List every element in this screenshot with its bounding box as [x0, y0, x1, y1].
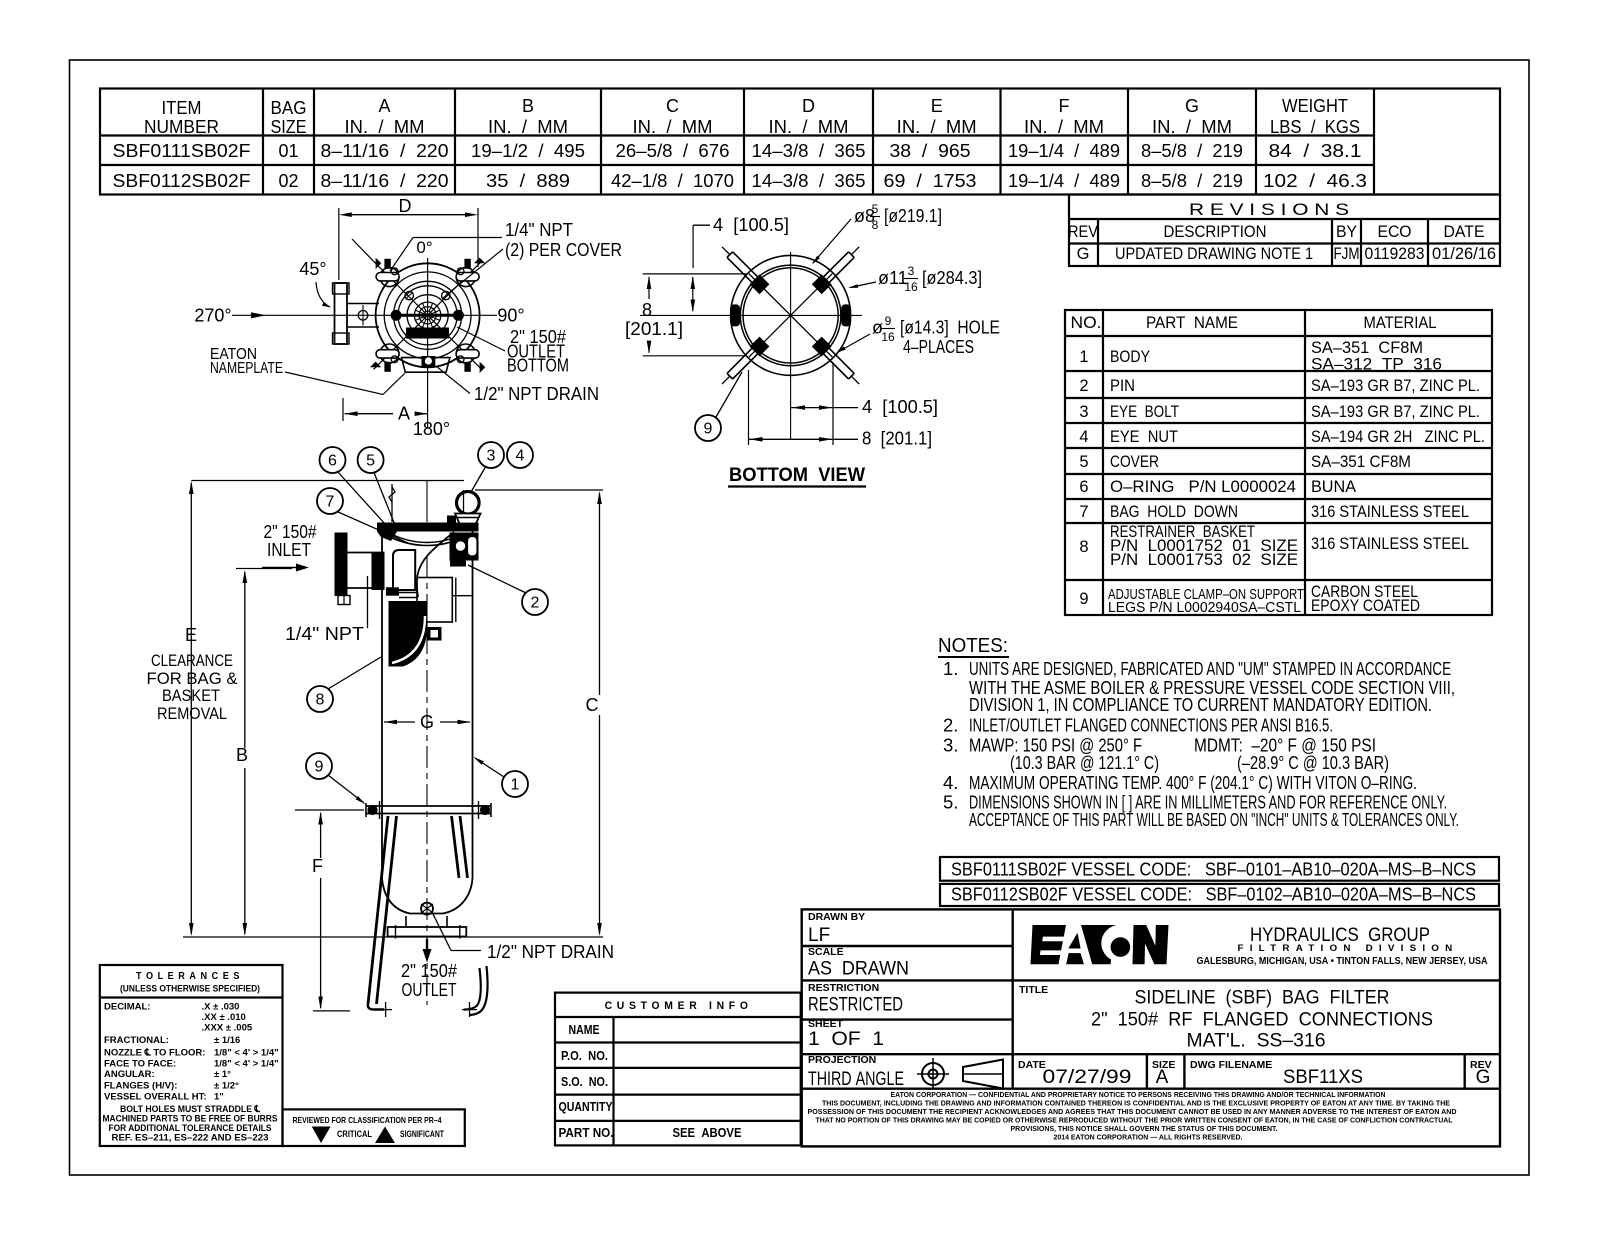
- title block labels: [808, 911, 1492, 1071]
- svg-text:G: G: [420, 712, 434, 732]
- inlet flange (black): [335, 533, 348, 597]
- svg-text:NOZZLE ℄ TO FLOOR:: NOZZLE ℄ TO FLOOR:: [104, 1048, 205, 1059]
- neck line right: [463, 490, 465, 522]
- svg-text:P.O. NO.: P.O. NO.: [561, 1049, 608, 1063]
- svg-text:2.: 2.: [943, 715, 958, 736]
- svg-text:THIRD ANGLE: THIRD ANGLE: [808, 1069, 904, 1090]
- filter bag section (black blob): [389, 601, 428, 667]
- svg-text:REVIEWED FOR CLASSIFICATION PE: REVIEWED FOR CLASSIFICATION PER PR–4: [293, 1115, 442, 1125]
- svg-text:OUTLET: OUTLET: [402, 979, 457, 1000]
- 1/2 NPT DRAIN leader: [432, 912, 451, 951]
- bag hold down ring section: [393, 550, 415, 590]
- svg-text:8–5/8 / 219: 8–5/8 / 219: [1141, 141, 1243, 161]
- svg-text:BUNA: BUNA: [1311, 478, 1356, 496]
- svg-text:3: 3: [1079, 403, 1088, 421]
- svg-text:2" 150#: 2" 150#: [401, 960, 458, 981]
- svg-text:SBF0111SB02F VESSEL CODE: SB: SBF0111SB02F VESSEL CODE: SBF–0101–AB10–…: [951, 860, 1476, 880]
- horizontal centerline: [640, 314, 862, 316]
- inlet flow arrow: [262, 567, 296, 569]
- heavy horizontal bar through center: [396, 314, 458, 317]
- svg-text:SA–351 CF8M: SA–351 CF8M: [1311, 453, 1411, 471]
- bolt circle: [407, 295, 448, 336]
- svg-text:SIZE: SIZE: [271, 117, 307, 137]
- dim 8 [201.1] left: [643, 273, 747, 275]
- bottom view outer circle: [731, 255, 851, 375]
- dimension B line: [244, 572, 246, 748]
- cover ear bumps: [380, 268, 399, 287]
- ground extension line: [183, 936, 603, 938]
- top table text: [113, 96, 1368, 191]
- nameplate leader: [285, 372, 383, 395]
- svg-text:4 [100.5]: 4 [100.5]: [862, 397, 938, 417]
- svg-text:BAG HOLD DOWN: BAG HOLD DOWN: [1110, 503, 1238, 521]
- C top extension: [475, 489, 603, 491]
- balloon 3: [478, 442, 504, 468]
- svg-text:3.: 3.: [943, 735, 958, 756]
- svg-text:5.: 5.: [943, 792, 958, 813]
- svg-text:FACE TO FACE:: FACE TO FACE:: [104, 1059, 176, 1070]
- svg-text:8 [201.1]: 8 [201.1]: [862, 429, 932, 449]
- svg-text:COVER: COVER: [1110, 453, 1159, 471]
- break squiggle on neck line: [391, 484, 393, 522]
- svg-text:CRITICAL: CRITICAL: [337, 1129, 372, 1139]
- O dot: [1111, 937, 1131, 957]
- title block values: [808, 925, 1490, 1090]
- center spokes: [432, 317, 440, 320]
- svg-text:2" 150# RF FLANGED CONNECT: 2" 150# RF FLANGED CONNECTIONS: [1091, 1010, 1433, 1031]
- svg-text:E: E: [185, 625, 197, 645]
- svg-text:ITEM: ITEM: [162, 98, 202, 118]
- vessel shell right wall: [472, 531, 474, 878]
- svg-text:DRAWN BY: DRAWN BY: [808, 911, 865, 923]
- svg-text:G: G: [1476, 1067, 1491, 1088]
- port circles 1/4 NPT: [405, 291, 413, 299]
- svg-text:45°: 45°: [299, 259, 326, 279]
- svg-text:180°: 180°: [413, 419, 450, 439]
- svg-text:SEE ABOVE: SEE ABOVE: [673, 1126, 742, 1140]
- svg-text:1.: 1.: [943, 658, 958, 679]
- 1/4 NPT boss: [338, 596, 350, 605]
- svg-text:SBF0112SB02F VESSEL CODE: SB: SBF0112SB02F VESSEL CODE: SBF–0102–AB10–…: [951, 885, 1476, 905]
- critical symbol: [312, 1127, 331, 1144]
- svg-text:SA–194 GR 2H ZINC PL.: SA–194 GR 2H ZINC PL.: [1311, 428, 1485, 446]
- svg-text:QUANTITY: QUANTITY: [559, 1100, 614, 1114]
- right support leg upper: [452, 816, 460, 878]
- third angle projection symbols: [917, 1058, 1003, 1090]
- B top extension: [236, 568, 292, 570]
- svg-text:4.: 4.: [943, 772, 958, 793]
- svg-text:26–5/8 / 676: 26–5/8 / 676: [616, 141, 730, 161]
- svg-text:PIN: PIN: [1110, 377, 1135, 395]
- leader outlet bottom: [457, 327, 505, 351]
- vertical centerline: [427, 258, 429, 428]
- cover plate (black): [377, 523, 479, 532]
- svg-text:B: B: [522, 96, 534, 116]
- customer info table: [555, 993, 801, 1146]
- D dimension: [345, 214, 470, 216]
- top dimension table grid: [100, 89, 1500, 195]
- svg-text:EPOXY COATED: EPOXY COATED: [1311, 597, 1420, 615]
- notes: [938, 634, 1459, 830]
- svg-text:FRACTIONAL:: FRACTIONAL:: [104, 1035, 169, 1046]
- svg-text:NAMEPLATE: NAMEPLATE: [210, 360, 283, 377]
- svg-text:42–1/8 / 1070: 42–1/8 / 1070: [611, 171, 734, 191]
- svg-text:[ø219.1]: [ø219.1]: [884, 206, 942, 226]
- svg-text:TITLE: TITLE: [1019, 984, 1048, 996]
- inlet pipe lines: [348, 552, 385, 554]
- svg-text:REMOVAL: REMOVAL: [157, 704, 227, 723]
- svg-text:2: 2: [531, 595, 540, 612]
- reviewed for classification box: [283, 1109, 465, 1146]
- F top extension: [295, 809, 364, 811]
- svg-text:F: F: [1059, 96, 1070, 116]
- svg-text:BAG: BAG: [271, 98, 307, 118]
- svg-text:9: 9: [315, 759, 324, 776]
- svg-text:TOLERANCES: TOLERANCES: [136, 971, 244, 982]
- svg-text:UNITS ARE DESIGNED, FABRICATED: UNITS ARE DESIGNED, FABRICATED AND "UM" …: [969, 658, 1451, 679]
- svg-text:16: 16: [904, 280, 918, 294]
- vessel centerline: [426, 480, 428, 522]
- svg-text:DIVISION 1, IN COMPLIANCE TO C: DIVISION 1, IN COMPLIANCE TO CURRENT MAN…: [969, 694, 1432, 715]
- svg-text:REV: REV: [1068, 223, 1098, 241]
- svg-text:4 [100.5]: 4 [100.5]: [713, 215, 789, 235]
- balloon 1: [502, 771, 528, 797]
- svg-text:2" 150#: 2" 150#: [264, 522, 317, 542]
- svg-text:IN. / MM: IN. / MM: [1024, 117, 1104, 137]
- svg-text:AS DRAWN: AS DRAWN: [808, 959, 909, 980]
- svg-text:19–1/2 / 495: 19–1/2 / 495: [471, 141, 585, 161]
- left support leg: [368, 816, 388, 1004]
- svg-text:A: A: [398, 404, 410, 424]
- svg-text:35 / 889: 35 / 889: [486, 171, 570, 191]
- leaders for 1/4 NPT: [413, 237, 502, 239]
- svg-text:.XXX ± .005: .XXX ± .005: [202, 1023, 253, 1034]
- drain boss bottom: [422, 356, 436, 367]
- A dimension: [342, 398, 344, 421]
- svg-text:16: 16: [881, 330, 895, 344]
- svg-text:LEGS P/N L0002940SA–CSTL: LEGS P/N L0002940SA–CSTL: [1108, 600, 1301, 616]
- svg-text:DESCRIPTION: DESCRIPTION: [1164, 223, 1267, 241]
- svg-text:F: F: [312, 856, 323, 876]
- dimension C line: [599, 493, 601, 695]
- 1/4 NPT leader: [367, 576, 369, 628]
- pin clamp assembly (item 2): [450, 533, 479, 561]
- svg-text:P/N L0001753 02 SIZE: P/N L0001753 02 SIZE: [1110, 551, 1298, 569]
- svg-text:8: 8: [316, 692, 325, 709]
- cover dish arcs: [382, 533, 473, 546]
- basket frame rect: [417, 578, 452, 623]
- svg-text:MAT'L. SS–316: MAT'L. SS–316: [1187, 1031, 1326, 1052]
- svg-text:D: D: [399, 196, 412, 216]
- svg-text:(UNLESS OTHERWISE SPECIFIED): (UNLESS OTHERWISE SPECIFIED): [120, 984, 260, 995]
- E top extension line: [191, 480, 464, 482]
- bag curve: [417, 532, 454, 597]
- balloon 7: [317, 488, 343, 514]
- svg-text:SA–193 GR B7, ZINC PL.: SA–193 GR B7, ZINC PL.: [1311, 403, 1480, 421]
- A: [1068, 933, 1080, 949]
- svg-text:102 / 46.3: 102 / 46.3: [1263, 171, 1367, 191]
- svg-text:INLET: INLET: [267, 540, 311, 560]
- svg-text:PROJECTION: PROJECTION: [808, 1054, 876, 1066]
- svg-text:1/4" NPT: 1/4" NPT: [285, 624, 364, 644]
- svg-text:ECO: ECO: [1378, 223, 1412, 241]
- basket rim double circle: [740, 265, 841, 366]
- svg-text:1/8" < 4' > 1/4": 1/8" < 4' > 1/4": [214, 1059, 279, 1070]
- svg-text:D: D: [802, 96, 815, 116]
- svg-text:DECIMAL:: DECIMAL:: [104, 1002, 150, 1013]
- diagonal spokes: [749, 274, 832, 357]
- svg-text:38 / 965: 38 / 965: [890, 141, 971, 161]
- svg-text:9: 9: [704, 421, 713, 438]
- svg-text:UPDATED DRAWING NOTE 1: UPDATED DRAWING NOTE 1: [1115, 245, 1313, 263]
- balloon 2: [522, 589, 548, 615]
- 45 leader arc: [316, 282, 330, 307]
- svg-text:02: 02: [279, 171, 299, 191]
- svg-text:7: 7: [326, 494, 335, 511]
- svg-text:316 STAINLESS STEEL: 316 STAINLESS STEEL: [1311, 503, 1469, 521]
- svg-text:6: 6: [328, 453, 337, 470]
- svg-text:14–3/8 / 365: 14–3/8 / 365: [752, 171, 866, 191]
- svg-text:9: 9: [885, 314, 892, 328]
- significant symbol: [375, 1127, 395, 1144]
- svg-text:S: S: [381, 1133, 387, 1143]
- svg-text:19–1/4 / 489: 19–1/4 / 489: [1008, 171, 1120, 191]
- shackle block: [447, 516, 456, 527]
- svg-text:MAXIMUM OPERATING TEMP. 400° F: MAXIMUM OPERATING TEMP. 400° F (204.1° C…: [969, 772, 1417, 793]
- svg-text:SCALE: SCALE: [808, 946, 844, 958]
- centerline bolt dots: [391, 310, 401, 320]
- svg-text:19–1/4 / 489: 19–1/4 / 489: [1008, 141, 1120, 161]
- svg-text:IN. / MM: IN. / MM: [897, 117, 977, 137]
- svg-text:9: 9: [1079, 590, 1088, 608]
- svg-text:RESTRICTED: RESTRICTED: [808, 995, 903, 1016]
- svg-text:90°: 90°: [497, 306, 524, 326]
- svg-text:B: B: [236, 745, 248, 765]
- svg-text:INLET/OUTLET FLANGED CONNECTIO: INLET/OUTLET FLANGED CONNECTIONS PER ANS…: [969, 715, 1333, 736]
- svg-text:8–11/16 / 220: 8–11/16 / 220: [321, 171, 449, 191]
- svg-text:IN. / MM: IN. / MM: [633, 117, 713, 137]
- inlet pipe lines top view: [347, 303, 379, 305]
- dimension G: [384, 721, 415, 723]
- svg-text:IN. / MM: IN. / MM: [769, 117, 849, 137]
- svg-text:R E V I S I O N S: R E V I S I O N S: [1189, 201, 1349, 219]
- svg-text:IN. / MM: IN. / MM: [345, 117, 425, 137]
- svg-text:± 1°: ± 1°: [214, 1069, 231, 1080]
- svg-text:PART NO.: PART NO.: [559, 1126, 614, 1140]
- svg-text:.X ± .030: .X ± .030: [202, 1002, 240, 1013]
- svg-text:G: G: [1185, 96, 1199, 116]
- svg-text:SA–193 GR B7, ZINC PL.: SA–193 GR B7, ZINC PL.: [1311, 377, 1480, 395]
- svg-text:MATERIAL: MATERIAL: [1364, 314, 1437, 332]
- outlet flange: [388, 927, 467, 937]
- svg-text:0°: 0°: [416, 238, 432, 257]
- svg-text:NO.: NO.: [1071, 314, 1102, 332]
- extended diagonal to 45 deg callout: [352, 239, 374, 261]
- svg-text:5: 5: [1079, 453, 1088, 471]
- vertical centerline: [790, 252, 792, 440]
- svg-text:4: 4: [516, 448, 525, 465]
- balloon 8: [307, 686, 333, 712]
- outlet bottom (black band): [406, 328, 449, 339]
- svg-text:84 / 38.1: 84 / 38.1: [1269, 141, 1362, 161]
- svg-text:SA–351 CF8M: SA–351 CF8M: [1311, 339, 1423, 357]
- svg-text:DATE: DATE: [1444, 223, 1485, 241]
- bottom extension lines: [748, 370, 750, 445]
- svg-text:5: 5: [872, 202, 879, 216]
- dim 4 [100.5] top: [692, 277, 694, 311]
- svg-text:LF: LF: [808, 925, 830, 946]
- svg-text:[201.1]: [201.1]: [625, 319, 683, 339]
- balloon 9 bottom view: [695, 415, 721, 441]
- pipe center mark: [358, 311, 368, 321]
- balloon 9 side: [306, 753, 332, 779]
- svg-text:07/27/99: 07/27/99: [1043, 1067, 1132, 1088]
- svg-text:4–PLACES: 4–PLACES: [903, 337, 974, 357]
- svg-text:DWG FILENAME: DWG FILENAME: [1190, 1059, 1272, 1071]
- small fitting on centerline: [427, 627, 442, 641]
- svg-text:IN. / MM: IN. / MM: [1152, 117, 1232, 137]
- svg-text:7: 7: [1079, 503, 1088, 521]
- svg-text:IN. / MM: IN. / MM: [488, 117, 568, 137]
- svg-text:G: G: [1077, 245, 1090, 263]
- N: [1133, 925, 1169, 964]
- parts list table: [1065, 310, 1492, 615]
- eye bolt ring: [457, 492, 480, 515]
- svg-text:1/8" < 4' > 1/4": 1/8" < 4' > 1/4": [214, 1048, 279, 1059]
- vessel shell left wall: [381, 531, 383, 878]
- cover outer outline: [376, 263, 480, 367]
- cover left lug wedge: [377, 532, 397, 542]
- svg-text:ANGULAR:: ANGULAR:: [104, 1069, 155, 1080]
- svg-text:4: 4: [1079, 428, 1088, 446]
- svg-text:O–RING P/N L0000024: O–RING P/N L0000024: [1110, 478, 1296, 496]
- dim 4 [100.5] bottom: [791, 407, 858, 409]
- inlet flow arrow top view: [251, 312, 266, 318]
- svg-text:1/4" NPT: 1/4" NPT: [505, 220, 573, 240]
- svg-text:PART NAME: PART NAME: [1146, 314, 1238, 332]
- svg-text:SBF11XS: SBF11XS: [1283, 1067, 1363, 1088]
- svg-text:5: 5: [366, 453, 375, 470]
- svg-text:BASKET: BASKET: [162, 686, 220, 705]
- svg-text:REF. ES–211, ES–222 AND ES–223: REF. ES–211, ES–222 AND ES–223: [112, 1133, 269, 1144]
- title block grid: [802, 909, 1500, 1146]
- cover inner arcs: [384, 272, 471, 359]
- inlet nozzle neck (black): [372, 553, 385, 591]
- svg-text:14–3/8 / 365: 14–3/8 / 365: [752, 141, 866, 161]
- bottom head: [382, 878, 473, 914]
- svg-text:1 OF 1: 1 OF 1: [808, 1029, 884, 1050]
- svg-text:BOTTOM: BOTTOM: [507, 356, 569, 376]
- balloon 6: [320, 447, 346, 473]
- center boss: [419, 307, 436, 324]
- dimension E line: [190, 483, 192, 934]
- svg-text:(10.3 BAR @ 121.1° C): (10.3 BAR @ 121.1° C): [1010, 752, 1159, 773]
- svg-text:SIGNIFICANT: SIGNIFICANT: [400, 1129, 444, 1139]
- svg-text:SBF0112SB02F: SBF0112SB02F: [113, 171, 251, 191]
- svg-text:EYE BOLT: EYE BOLT: [1110, 403, 1179, 421]
- svg-text:VESSEL OVERALL HT:: VESSEL OVERALL HT:: [104, 1092, 207, 1103]
- inlet flange left: [335, 283, 348, 344]
- T with circular cutout: [1081, 925, 1116, 964]
- svg-text:8: 8: [1079, 538, 1088, 556]
- svg-text:8–11/16 / 220: 8–11/16 / 220: [321, 141, 449, 161]
- dim 8 [201.1] bottom: [749, 438, 859, 440]
- dimension F line: [320, 813, 322, 858]
- svg-text:8–5/8 / 219: 8–5/8 / 219: [1141, 171, 1243, 191]
- F bottom extension: [313, 1010, 350, 1012]
- svg-text:C: C: [586, 695, 599, 715]
- svg-text:NOTES:: NOTES:: [938, 634, 1008, 657]
- diagonal X lines: [374, 261, 482, 369]
- svg-text:EYE NUT: EYE NUT: [1110, 428, 1178, 446]
- svg-text:69 / 1753: 69 / 1753: [884, 171, 977, 191]
- svg-text:01/26/16: 01/26/16: [1432, 245, 1496, 263]
- svg-text:1": 1": [214, 1092, 224, 1103]
- svg-text:ø11: ø11: [878, 268, 908, 288]
- svg-text:8: 8: [642, 300, 652, 320]
- vessel code boxes: [940, 857, 1499, 906]
- svg-text:6: 6: [1079, 478, 1088, 496]
- nameplate bracket: [402, 358, 450, 373]
- svg-text:1/2" NPT DRAIN: 1/2" NPT DRAIN: [487, 941, 614, 962]
- svg-text:SIDELINE (SBF) BAG FILTER: SIDELINE (SBF) BAG FILTER: [1135, 988, 1390, 1009]
- corner clamp lugs and rails: [750, 274, 770, 294]
- right leg foot hook: [464, 968, 481, 1010]
- svg-text:1: 1: [511, 777, 520, 794]
- svg-text:(2) PER COVER: (2) PER COVER: [505, 240, 622, 260]
- svg-text:S.O. NO.: S.O. NO.: [561, 1075, 608, 1089]
- svg-text:316 STAINLESS STEEL: 316 STAINLESS STEEL: [1311, 535, 1469, 553]
- svg-text:3: 3: [908, 264, 915, 278]
- svg-text:.XX ± .010: .XX ± .010: [202, 1012, 246, 1023]
- svg-text:2014 EATON CORPORATION — ALL R: 2014 EATON CORPORATION — ALL RIGHTS RESE…: [1054, 1133, 1243, 1142]
- eye nut: [455, 514, 481, 524]
- outlet flow arrow: [426, 939, 428, 950]
- outlet skirt: [405, 916, 407, 927]
- svg-text:NUMBER: NUMBER: [144, 117, 219, 137]
- svg-text:LBS / KGS: LBS / KGS: [1270, 117, 1360, 137]
- balloon 4: [507, 442, 533, 468]
- svg-text:FJM: FJM: [1334, 245, 1360, 263]
- weld pad (black): [386, 587, 399, 595]
- svg-text:GALESBURG, MICHIGAN, USA • TIN: GALESBURG, MICHIGAN, USA • TINTON FALLS,…: [1197, 956, 1488, 967]
- svg-text:2: 2: [1079, 377, 1088, 395]
- svg-text:[ø14.3] HOLE: [ø14.3] HOLE: [900, 318, 1000, 338]
- svg-text:A: A: [1156, 1067, 1169, 1088]
- svg-text:1: 1: [1079, 348, 1088, 366]
- legal fine print: [808, 1090, 1458, 1142]
- svg-text:CUSTOMER INFO: CUSTOMER INFO: [605, 1000, 753, 1012]
- svg-text:E: E: [931, 96, 943, 116]
- svg-text:SBF0111SB02F: SBF0111SB02F: [113, 141, 251, 161]
- svg-text:SA–312 TP 316: SA–312 TP 316: [1311, 356, 1442, 374]
- svg-text:(–28.9° C @ 10.3 BAR): (–28.9° C @ 10.3 BAR): [1237, 752, 1389, 773]
- svg-text:A: A: [378, 96, 390, 116]
- svg-text:BOTTOM VIEW: BOTTOM VIEW: [729, 465, 865, 486]
- svg-text:[ø284.3]: [ø284.3]: [922, 268, 982, 288]
- EATON logo: [1031, 925, 1169, 964]
- svg-text:3: 3: [487, 448, 496, 465]
- corner clamp assemblies: [376, 273, 399, 281]
- svg-text:C: C: [666, 96, 679, 116]
- svg-text:1/2" NPT DRAIN: 1/2" NPT DRAIN: [474, 384, 599, 404]
- svg-text:FLANGES (H/V):: FLANGES (H/V):: [104, 1081, 177, 1092]
- side lugs (black): [730, 304, 740, 326]
- svg-text:± 1/16: ± 1/16: [214, 1035, 240, 1046]
- svg-text:C: C: [316, 1129, 323, 1139]
- E: [1031, 925, 1067, 964]
- tolerances box: [100, 965, 283, 1146]
